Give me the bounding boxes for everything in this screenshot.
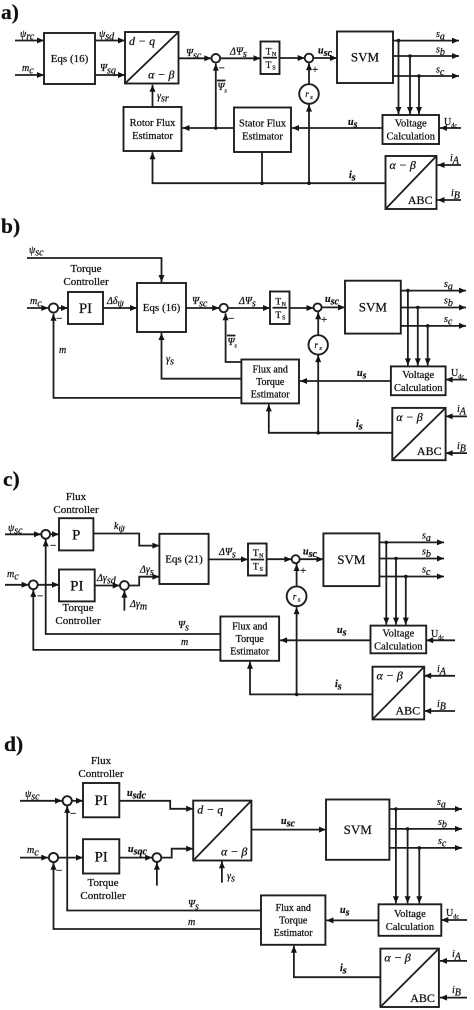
wire r_s to sum4 C (294, 564, 300, 586)
wire sum3 to Eqs21 C (129, 574, 159, 586)
svg-text:T: T (266, 61, 272, 71)
wire dgamma_m stub C (121, 591, 127, 611)
wire tap s_c to VC A (416, 76, 422, 114)
block Voltage Calculation D (379, 904, 442, 936)
label i_B D (452, 985, 461, 998)
svg-text:Torque: Torque (236, 634, 265, 645)
wire tap s_a to VC C (383, 542, 389, 624)
wire m feedback C (30, 590, 220, 650)
plus at sum4 C (300, 565, 306, 577)
transform alpha-beta / ABC B (392, 408, 445, 460)
wire Psi_sc A (179, 55, 212, 61)
svg-text:N: N (282, 302, 287, 308)
wire i_A B (446, 413, 467, 419)
wire sum1 to P C (50, 531, 59, 537)
wire TN to sum2 A (280, 55, 305, 61)
svg-text:ABC: ABC (417, 444, 442, 458)
label u_s D (340, 905, 350, 918)
wire tap s_c to VC D (416, 848, 422, 903)
label s_a D (437, 797, 446, 810)
plus at sum2 A (312, 64, 318, 76)
svg-text:Voltage: Voltage (395, 118, 427, 129)
wire i_s to r_s B (315, 355, 321, 432)
svg-text:+: + (300, 565, 306, 577)
section label a) (1, 0, 19, 24)
svg-text:Calculation: Calculation (386, 922, 435, 933)
block SVM A (337, 32, 393, 84)
svg-text:α − β: α − β (390, 158, 416, 172)
summing junction 2 C (29, 580, 38, 589)
wire psi_rc input A (15, 38, 44, 44)
wire PI1 to dq D (119, 801, 193, 812)
label dgamma_s C (139, 565, 154, 578)
wire i_B D (440, 995, 467, 1001)
wire gamma_s feedback B (159, 333, 242, 379)
wire m_c input C (5, 582, 29, 588)
label U_dc D (446, 908, 459, 920)
label ddelta_psi B (106, 296, 125, 309)
summing junction 3 C (120, 581, 129, 590)
wire i_B C (424, 708, 455, 714)
svg-text:Estimator: Estimator (242, 132, 283, 143)
label u_sc A (318, 46, 332, 59)
svg-text:r: r (314, 340, 318, 350)
wire tap s_b to VC C (393, 559, 399, 625)
block PI torque controller B (68, 292, 103, 324)
label s_c D (438, 836, 447, 849)
block SVM D (326, 800, 389, 860)
svg-text:d): d) (4, 732, 23, 756)
wire TN to sum4 C (267, 556, 292, 562)
label U_dc B (451, 368, 464, 380)
svg-text:N: N (272, 52, 277, 58)
wire psi_s feedback D (64, 806, 261, 911)
label psi_s C (178, 620, 189, 633)
wire psi_sc input C (5, 531, 41, 537)
wire Psibar_s feedback B (223, 313, 242, 362)
label Torque Controller C (55, 602, 101, 627)
wire u_s to stator estimator A (292, 125, 383, 131)
wire i_s line D (291, 946, 381, 977)
section label d) (4, 732, 23, 756)
section label b) (1, 214, 20, 238)
label m B (59, 345, 66, 356)
wire r_s to sum2 A (306, 63, 312, 84)
svg-text:b): b) (1, 214, 20, 238)
svg-text:Torque: Torque (279, 915, 308, 926)
label Psi_sc B (192, 296, 208, 309)
minus at sum1 A (219, 63, 225, 75)
svg-text:Controller: Controller (53, 504, 99, 516)
svg-text:T: T (275, 311, 281, 321)
wire tap s_a to VC D (393, 809, 399, 903)
wire tap s_b to VC A (407, 56, 413, 114)
label i_B C (437, 699, 446, 712)
wire stator to rotor estimator A (183, 125, 235, 131)
wire Psi_sqc A (95, 72, 125, 78)
svg-text:Torque: Torque (63, 602, 94, 614)
minus at sum2 C (37, 591, 43, 603)
summing junction 2 B (220, 304, 228, 312)
transform d-q / alpha-beta A (125, 32, 179, 84)
svg-text:m: m (181, 637, 188, 648)
svg-text:d − q: d − q (129, 34, 155, 48)
svg-text:Calculation: Calculation (394, 383, 443, 394)
block Eqs (21) C (159, 534, 208, 584)
wire dPsi_s to TN A (220, 55, 260, 61)
wire sum1 to PI B (58, 305, 68, 311)
wire u_sc to SVM D (251, 827, 326, 833)
label u_sc C (303, 547, 317, 560)
block Eqs (16) B (137, 283, 186, 332)
svg-text:m: m (59, 345, 66, 356)
svg-text:P: P (72, 527, 80, 543)
svg-text:PI: PI (70, 578, 83, 594)
label Psi_sqc A (100, 63, 116, 76)
label dPsi_s B (238, 296, 256, 309)
wire Psi_sc B (186, 305, 219, 311)
svg-text:−: − (219, 63, 225, 75)
wire sum2 to PI2 D (58, 855, 83, 861)
label u_s A (348, 117, 358, 130)
label i_s B (356, 419, 363, 432)
wire i_A D (440, 958, 467, 964)
summing junction 3 D (153, 853, 162, 862)
wire gamma_s stub D (219, 861, 225, 882)
svg-text:Eqs (16): Eqs (16) (143, 302, 181, 314)
label s_a B (444, 279, 453, 292)
label i_s C (335, 679, 342, 692)
block T_N/T_S B (270, 292, 290, 325)
wire s_a C (379, 539, 444, 545)
label i_A B (457, 404, 467, 417)
wire sum2 to PI C (38, 582, 59, 588)
wire i_s to r_s C (294, 607, 300, 694)
label psi_rc A (20, 29, 35, 42)
block Eqs (16) A (44, 33, 95, 84)
svg-text:ABC: ABC (396, 703, 421, 717)
wire i_s line B (266, 404, 393, 434)
wire s_a D (389, 806, 462, 812)
block PI flux controller D (83, 783, 119, 817)
svg-text:α − β: α − β (221, 845, 247, 859)
wire PI to Eqs16 B (103, 305, 137, 311)
transform d-q / alpha-beta D (193, 801, 251, 861)
block PI torque controller C (59, 570, 95, 602)
svg-text:−: − (50, 540, 56, 552)
label psi_s D (188, 899, 199, 912)
wire PI2 to sum3 D (119, 855, 152, 861)
svg-text:−: − (70, 808, 76, 820)
block Flux and Torque Estimator D (261, 895, 325, 944)
wire gamma_sr A (150, 85, 156, 107)
wire tap s_b to VC B (415, 308, 421, 366)
svg-text:α − β: α − β (384, 951, 410, 965)
svg-text:T: T (275, 297, 281, 307)
svg-text:α − β: α − β (396, 410, 422, 424)
label i_B B (457, 441, 466, 454)
wire i_s to r_s A (306, 105, 312, 184)
wire s_c A (393, 73, 459, 79)
wire i_B B (446, 450, 467, 456)
svg-text:Flux and: Flux and (276, 903, 311, 914)
label i_B A (451, 188, 460, 201)
transform alpha-beta / ABC A (386, 156, 437, 209)
block Flux and Torque Estimator B (241, 360, 299, 404)
wire tap s_c to VC C (403, 577, 409, 625)
svg-text:Eqs (21): Eqs (21) (165, 554, 203, 566)
svg-text:r: r (293, 591, 297, 601)
label u_sqc D (128, 844, 147, 857)
wire m feedback D (51, 863, 262, 929)
wire m feedback B (51, 314, 242, 398)
svg-text:S: S (260, 567, 263, 573)
svg-text:−: − (56, 865, 62, 877)
minus at sum2 D (56, 865, 62, 877)
svg-text:ABC: ABC (408, 193, 433, 207)
label m_c D (27, 845, 39, 858)
svg-text:α − β: α − β (148, 68, 174, 82)
label gamma_sr A (157, 91, 169, 104)
wire tap s_a to VC B (405, 291, 411, 366)
svg-text:−: − (56, 313, 62, 325)
label gamma_s D (227, 871, 235, 884)
wire s_b B (401, 305, 466, 311)
label i_s D (340, 963, 347, 976)
svg-text:a): a) (1, 0, 19, 24)
label Torque Controller D (80, 877, 126, 902)
svg-text:S: S (272, 65, 275, 71)
wire psi_s feedback C (43, 539, 221, 634)
svg-text:SVM: SVM (344, 822, 373, 837)
summing junction 1 D (63, 796, 72, 805)
svg-text:Eqs (16): Eqs (16) (51, 53, 89, 65)
label u_s C (337, 625, 347, 638)
svg-text:PI: PI (79, 301, 92, 317)
svg-text:S: S (282, 315, 285, 321)
minus at sum2 B (228, 313, 234, 325)
block Rotor Flux Estimator A (124, 107, 182, 151)
summing junction 3 B (314, 303, 322, 311)
wire i_s line A (150, 152, 386, 185)
resistance r_s A (299, 84, 319, 104)
svg-text:PI: PI (94, 849, 107, 865)
summing junction 1 C (41, 530, 50, 539)
wire U_dc D (441, 917, 467, 923)
block T_N/T_S A (261, 42, 280, 75)
summing junction 1 B (49, 303, 58, 312)
label k_psi C (114, 521, 125, 534)
label Torque Controller B (63, 263, 109, 288)
summing junction 1 A (212, 54, 221, 63)
svg-text:PI: PI (94, 793, 107, 809)
wire U_dc C (426, 637, 455, 643)
wire stub below sum3 D (154, 863, 160, 886)
wire m_c input D (20, 855, 48, 861)
label s_b A (436, 45, 445, 58)
plus at sum3 B (321, 314, 327, 326)
svg-text:−: − (37, 591, 43, 603)
wire u_s to estimator C (280, 637, 370, 643)
svg-text:ABC: ABC (410, 991, 435, 1005)
label s_b C (422, 547, 431, 560)
label dgamma_sd C (96, 573, 117, 586)
label s_c B (444, 314, 453, 327)
wire s_b D (389, 826, 462, 832)
wire u_s to estimator B (300, 378, 391, 384)
svg-text:Estimator: Estimator (274, 928, 314, 939)
wire s_c D (389, 845, 462, 851)
svg-text:Stator Flux: Stator Flux (239, 119, 287, 130)
svg-text:Flux: Flux (66, 491, 87, 503)
block Stator Flux Estimator A (234, 108, 291, 153)
svg-text:Voltage: Voltage (394, 909, 426, 920)
label Flux Controller C (53, 491, 99, 516)
label i_A A (450, 153, 460, 166)
svg-text:T: T (266, 47, 272, 57)
svg-text:+: + (312, 64, 318, 76)
wire m_c input A (15, 72, 44, 78)
block Voltage Calculation A (383, 115, 440, 144)
label s_b D (438, 817, 447, 830)
label u_sc B (325, 294, 339, 307)
svg-text:Calculation: Calculation (374, 641, 423, 652)
svg-text:m: m (188, 917, 195, 928)
label m_c A (22, 63, 34, 76)
label i_A D (452, 949, 462, 962)
block PI torque controller D (83, 839, 119, 873)
label m D (188, 917, 195, 928)
wire s_c B (401, 323, 466, 329)
resistance r_s B (309, 335, 328, 354)
svg-text:N: N (259, 554, 264, 560)
svg-text:SVM: SVM (337, 552, 366, 567)
label u_sdc D (127, 788, 146, 801)
svg-text:−: − (228, 313, 234, 325)
label i_s A (349, 170, 356, 183)
svg-text:Estimator: Estimator (230, 646, 270, 657)
wire i_A C (424, 673, 455, 679)
svg-text:Flux and: Flux and (253, 364, 288, 375)
label m C (181, 637, 188, 648)
svg-text:SVM: SVM (351, 50, 380, 65)
wire dPsi_s to TN B (228, 305, 270, 311)
wire s_b A (393, 53, 459, 59)
label psi_sc D (25, 789, 40, 802)
wire sum3 to dq D (161, 846, 193, 858)
summing junction 4 C (292, 555, 300, 563)
wire u_sc to SVM C (300, 556, 324, 562)
wire Psi_sdc A (95, 38, 125, 44)
label Psibar_s A (217, 81, 228, 95)
label psi_sc C (8, 523, 23, 536)
wire PI to sum3 C (95, 583, 120, 589)
wire U_dc A (440, 125, 461, 131)
label i_A C (437, 664, 447, 677)
label psi_sc B (29, 245, 44, 258)
svg-text:Estimator: Estimator (251, 389, 291, 400)
minus at sum1 D (70, 808, 76, 820)
svg-text:Flux: Flux (91, 755, 112, 767)
svg-text:α − β: α − β (377, 669, 403, 683)
label U_dc A (444, 117, 457, 129)
svg-text:Controller: Controller (78, 768, 124, 780)
wire TN to sum3 B (290, 305, 314, 311)
wire u_s to estimator D (326, 917, 378, 923)
wire u_sc to SVM B (322, 304, 345, 310)
svg-text:Calculation: Calculation (387, 131, 436, 142)
svg-text:Voltage: Voltage (382, 628, 414, 639)
wire tap s_a to VC A (396, 41, 402, 114)
svg-text:Torque: Torque (256, 377, 285, 388)
wire s_b C (379, 556, 444, 562)
label s_b B (444, 296, 453, 309)
svg-text:Controller: Controller (80, 890, 126, 902)
wire u_sc to SVM A (313, 55, 337, 61)
label u_sc D (281, 816, 295, 829)
label Psi_sc A (186, 48, 202, 61)
block Flux and Torque Estimator C (220, 617, 279, 661)
wire tap s_c to VC B (425, 326, 431, 366)
block SVM B (345, 281, 401, 334)
wire Psibar_s feedback A (213, 64, 219, 128)
wire tap s_b to VC D (405, 829, 411, 903)
svg-text:Estimator: Estimator (132, 131, 173, 142)
label s_a C (422, 531, 431, 544)
wire psi_sc input B (27, 258, 165, 282)
label gamma_s B (166, 354, 174, 367)
label U_dc C (431, 629, 444, 641)
svg-text:+: + (321, 314, 327, 326)
wire U_dc B (446, 377, 467, 383)
wire i_B A (438, 197, 462, 203)
minus at sum1 C (50, 540, 56, 552)
svg-text:T: T (253, 563, 259, 573)
block T_N/T_S C (248, 544, 267, 576)
resistance r_s C (287, 586, 307, 606)
wire stator estimator to i_s A (261, 152, 263, 183)
label dgamma_m C (129, 599, 147, 612)
minus at sum1 B (56, 313, 62, 325)
block Voltage Calculation B (391, 366, 446, 395)
block SVM C (323, 533, 379, 586)
svg-text:r: r (305, 89, 309, 99)
svg-text:Voltage: Voltage (402, 370, 434, 381)
transform alpha-beta / ABC D (380, 949, 439, 1007)
wire sum1 to PI1 D (72, 798, 83, 804)
wire s_a A (393, 38, 459, 44)
label dPsi_s A (229, 47, 247, 60)
wire m_c input B (27, 305, 48, 311)
label dPsi_s C (218, 547, 236, 560)
summing junction 2 A (305, 54, 314, 63)
wire P to Eqs21 C (93, 534, 159, 549)
svg-text:c): c) (3, 467, 20, 491)
svg-text:SVM: SVM (359, 299, 388, 314)
label Psi_sdc A (99, 29, 115, 42)
svg-text:Torque: Torque (71, 263, 102, 275)
label s_c C (422, 565, 431, 578)
wire s_a B (401, 288, 466, 294)
svg-text:Flux and: Flux and (232, 621, 267, 632)
label u_s B (357, 368, 367, 381)
svg-text:Controller: Controller (63, 276, 109, 288)
block Voltage Calculation C (371, 626, 427, 654)
section label c) (3, 467, 20, 491)
wire i_s line C (247, 662, 373, 696)
label m_c C (7, 569, 19, 582)
block P flux controller C (59, 518, 93, 550)
